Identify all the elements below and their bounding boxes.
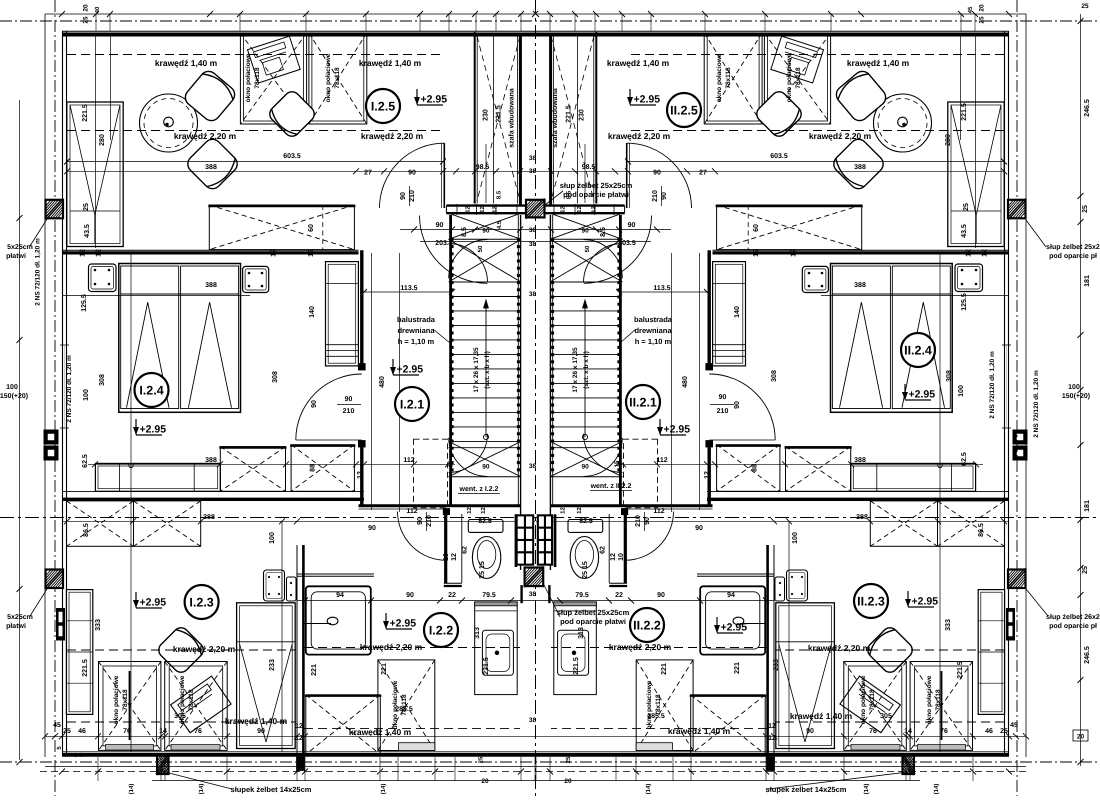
svg-text:8.5: 8.5 — [496, 190, 503, 199]
nightstand I.2.4 b — [802, 266, 828, 292]
dim row 295.5 — [821, 295, 1009, 297]
svg-text:12: 12 — [464, 206, 471, 213]
svg-text:5x25cm: 5x25cm — [7, 244, 33, 251]
stair treads — [452, 281, 518, 283]
door arc landing — [419, 216, 487, 284]
roof edge 1.40 top — [628, 54, 1004, 56]
svg-text:(14): (14) — [645, 784, 652, 795]
beam tick — [476, 204, 478, 215]
svg-text:25: 25 — [478, 756, 485, 763]
svg-text:+2.95: +2.95 — [909, 389, 936, 401]
duvet fold a — [902, 302, 945, 408]
dim row 171.3 — [536, 170, 1004, 172]
svg-text:h = 1,10 m: h = 1,10 m — [398, 337, 435, 346]
svg-text:90: 90 — [406, 592, 414, 599]
skylight I.2.3 a — [99, 662, 161, 751]
door jamb — [358, 441, 365, 448]
shower top wall — [697, 575, 774, 577]
svg-text:43.5: 43.5 — [84, 224, 91, 238]
top dim ticks — [59, 11, 65, 17]
outer thin frame line bottom — [45, 766, 1026, 768]
svg-text:90: 90 — [482, 228, 490, 235]
svg-text:38: 38 — [529, 155, 537, 162]
beam tick — [594, 204, 596, 215]
vent duct — [624, 439, 658, 508]
room label I.2.2 — [424, 613, 458, 647]
door arc stair top a — [449, 240, 488, 279]
svg-text:I.2.4: I.2.4 — [139, 384, 163, 398]
svg-text:II.2.4: II.2.4 — [904, 344, 932, 358]
WC niche walls — [444, 509, 447, 583]
svg-text:8.5: 8.5 — [600, 227, 607, 237]
svg-text:233: 233 — [269, 659, 276, 671]
svg-text:płatwi: płatwi — [6, 622, 26, 630]
svg-text:słup żelbet 25x25cm: słup żelbet 25x25cm — [560, 181, 633, 190]
door arc stair bottom b — [449, 434, 488, 473]
svg-text:210: 210 — [652, 190, 659, 202]
svg-text:5x25cm: 5x25cm — [7, 614, 33, 621]
wall I.2.4 / I.2.3 — [62, 491, 364, 493]
svg-text:+2.95: +2.95 — [664, 424, 691, 436]
shelf unit I.2.3 west — [978, 590, 1004, 715]
svg-text:+2.95: +2.95 — [721, 622, 748, 634]
svg-text:150(+20): 150(+20) — [1062, 392, 1090, 400]
corridor bottom wall — [359, 504, 522, 507]
beam over stair — [446, 204, 535, 206]
level label I.2.2 — [383, 613, 416, 630]
dim row 521 — [62, 520, 535, 522]
svg-text:krawędź 1,40 m: krawędź 1,40 m — [225, 716, 288, 726]
svg-text:76: 76 — [940, 728, 948, 735]
svg-text:2 NS 72/120 dł. 1,20 m: 2 NS 72/120 dł. 1,20 m — [1033, 370, 1040, 438]
svg-text:221.5: 221.5 — [483, 657, 490, 675]
skylight I.2.5 a — [764, 33, 830, 124]
svg-text:221: 221 — [381, 663, 388, 675]
svg-text:79.5: 79.5 — [482, 592, 496, 599]
svg-text:78x118: 78x118 — [869, 689, 876, 711]
stair winders bottom — [449, 442, 521, 477]
desk chair I.2.5 — [754, 89, 805, 140]
room label I.2.4 — [135, 373, 169, 407]
cabinet I.2.4 east — [326, 262, 359, 366]
armchair I.2.5 a — [833, 68, 889, 124]
svg-text:38: 38 — [529, 717, 537, 724]
svg-text:25: 25 — [83, 203, 90, 211]
svg-text:(14): (14) — [380, 784, 387, 795]
svg-text:12: 12 — [704, 471, 711, 479]
wardrobe X brace — [477, 36, 520, 201]
svg-text:krawędź 2,20 m: krawędź 2,20 m — [173, 644, 236, 654]
wall below column — [520, 585, 522, 603]
svg-text:(14): (14) — [863, 784, 870, 795]
svg-text:112: 112 — [653, 508, 664, 515]
skylight I.2.3 a — [910, 662, 972, 751]
svg-text:90: 90 — [719, 394, 727, 401]
svg-text:+2.95: +2.95 — [397, 364, 424, 376]
chimney flue block — [516, 514, 535, 565]
wall I.2.5 / wardrobe — [595, 32, 597, 204]
svg-text:słup żelbet 25x2: słup żelbet 25x2 — [1046, 243, 1100, 251]
svg-text:98.5: 98.5 — [582, 164, 596, 171]
svg-text:308: 308 — [272, 371, 279, 383]
window sill I.2.3 a — [106, 745, 154, 751]
svg-text:480: 480 — [682, 376, 689, 388]
svg-text:okno połaciowe: okno połaciowe — [113, 675, 120, 724]
svg-text:12: 12 — [768, 723, 776, 730]
eave dash-dot frame — [0, 20, 1100, 22]
svg-text:246.5: 246.5 — [1084, 99, 1091, 117]
svg-text:388: 388 — [854, 282, 866, 289]
chimney side wall — [515, 514, 518, 567]
svg-text:388: 388 — [205, 164, 217, 171]
svg-text:krawędź 2,20 m: krawędź 2,20 m — [808, 643, 871, 653]
svg-text:98.5: 98.5 — [476, 164, 490, 171]
svg-text:280: 280 — [99, 134, 106, 146]
svg-text:krawędź 2,20 m: krawędź 2,20 m — [609, 642, 672, 652]
stair direction line — [485, 300, 487, 437]
svg-text:10: 10 — [443, 553, 450, 561]
svg-text:+2.95: +2.95 — [634, 94, 661, 106]
left margin dim line — [19, 100, 21, 760]
svg-text:II.2.1: II.2.1 — [629, 396, 657, 410]
stair winders top — [550, 239, 622, 282]
beam tick — [613, 204, 615, 215]
round table I.2.5 — [140, 94, 198, 152]
svg-text:112: 112 — [656, 457, 667, 464]
svg-text:I.2.3: I.2.3 — [189, 596, 213, 610]
cabinet I.2.4 east — [713, 262, 746, 366]
beam tick — [456, 204, 458, 215]
svg-text:pod oparcie pł: pod oparcie pł — [1049, 622, 1097, 630]
svg-text:25: 25 — [1082, 566, 1089, 574]
svg-text:12: 12 — [965, 249, 972, 257]
svg-text:h = 1,10 m: h = 1,10 m — [635, 337, 672, 346]
svg-text:203.5: 203.5 — [435, 240, 453, 247]
column below chimney — [524, 566, 543, 587]
door arc stair top b — [584, 244, 623, 283]
bath door jamb — [443, 509, 449, 515]
door arc stair bottom b — [584, 434, 623, 473]
svg-text:0 4: 0 4 — [74, 752, 83, 759]
svg-text:388: 388 — [854, 164, 866, 171]
svg-text:+2.95: +2.95 — [912, 596, 939, 608]
svg-text:okno połaciowe: okno połaciowe — [646, 680, 653, 729]
svg-text:90: 90 — [695, 525, 703, 532]
roof edge 1.40 bottom — [775, 721, 1004, 723]
top exterior wall — [62, 30, 1009, 32]
stair winders bottom — [550, 442, 622, 477]
svg-text:25: 25 — [1082, 205, 1089, 213]
svg-text:krawędź 1,40 m: krawędź 1,40 m — [155, 58, 218, 68]
bottom extension stubs — [972, 757, 974, 781]
room label I.2.3 — [185, 585, 219, 619]
svg-text:14: 14 — [159, 728, 167, 735]
svg-text:I.2.2: I.2.2 — [429, 624, 453, 638]
desk I.2.3 rotated — [840, 676, 900, 733]
skylight I.2.5 a — [240, 33, 306, 124]
svg-text:90: 90 — [806, 728, 814, 735]
svg-text:pod oparcie pł: pod oparcie pł — [1049, 252, 1097, 260]
built-in wardrobe strip — [593, 33, 595, 204]
door arc stair bottom a — [584, 438, 623, 477]
window sill I.2.3 a — [918, 745, 966, 751]
door jamb — [706, 441, 713, 448]
svg-text:285.5: 285.5 — [647, 713, 665, 720]
svg-text:86.5: 86.5 — [83, 523, 90, 537]
stair landing lines — [550, 238, 622, 240]
window axis left wall — [1002, 344, 1011, 346]
svg-text:25: 25 — [963, 203, 970, 211]
nightstand I.2.4 a — [955, 264, 983, 292]
svg-text:pod oparcie płatwi: pod oparcie płatwi — [563, 190, 629, 199]
armchair I.2.5 b — [830, 136, 887, 193]
skylight I.2.3 b — [165, 662, 228, 751]
svg-text:221.5: 221.5 — [82, 104, 89, 122]
svg-text:210: 210 — [409, 190, 416, 202]
svg-text:78x118: 78x118 — [188, 689, 195, 711]
svg-text:12: 12 — [295, 735, 303, 742]
svg-text:25: 25 — [63, 728, 71, 735]
svg-text:313: 313 — [474, 627, 481, 639]
svg-text:79.5: 79.5 — [575, 592, 589, 599]
svg-text:90: 90 — [436, 222, 444, 229]
svg-text:drewniana: drewniana — [397, 326, 435, 335]
svg-text:szafa wbudowana: szafa wbudowana — [507, 88, 515, 148]
svg-text:27: 27 — [364, 170, 372, 177]
wall I.2.5 / wardrobe — [474, 32, 476, 204]
dim row 295.5 — [62, 295, 250, 297]
skylight glazing bar — [941, 671, 943, 740]
mattress a — [892, 266, 950, 409]
svg-text:230: 230 — [578, 109, 585, 121]
chimney side wall — [554, 514, 557, 567]
eave column bottom — [156, 753, 170, 775]
svg-text:285.5: 285.5 — [395, 706, 413, 713]
svg-text:38: 38 — [529, 168, 537, 175]
svg-text:17 x 26 x 17,35: 17 x 26 x 17,35 — [473, 347, 480, 393]
window sill I.2.3 b — [851, 745, 900, 751]
svg-text:210: 210 — [426, 515, 433, 527]
svg-text:221.5: 221.5 — [496, 105, 503, 123]
beam tick — [553, 204, 555, 215]
vent duct — [414, 439, 448, 508]
svg-text:balustrada: balustrada — [397, 315, 436, 324]
svg-text:76: 76 — [194, 728, 202, 735]
stair landing lines — [449, 238, 521, 240]
nightstand I.2.4 b — [243, 266, 269, 292]
svg-text:388: 388 — [205, 457, 217, 464]
svg-text:słupek żelbet 14x25cm: słupek żelbet 14x25cm — [766, 785, 847, 794]
dim row 241.5 — [420, 241, 535, 243]
level label II.2.3 — [905, 591, 938, 608]
svg-text:308: 308 — [99, 374, 106, 386]
dim row 731 — [45, 735, 535, 737]
svg-text:+2.95: +2.95 — [140, 424, 167, 436]
svg-text:II.2.2: II.2.2 — [633, 619, 661, 633]
svg-text:17 x 26 x 17,35: 17 x 26 x 17,35 — [572, 347, 579, 393]
svg-text:125.5: 125.5 — [81, 294, 88, 312]
duct wall line — [608, 514, 610, 583]
svg-text:603.5: 603.5 — [770, 153, 788, 160]
svg-text:62: 62 — [462, 546, 469, 554]
mattress b — [832, 266, 890, 409]
toilet — [568, 520, 603, 533]
svg-text:krawędź 1,40 m: krawędź 1,40 m — [847, 58, 910, 68]
svg-text:90: 90 — [657, 592, 665, 599]
wall I.2.5 / I.2.4 — [62, 249, 359, 251]
svg-text:8.5: 8.5 — [566, 190, 573, 199]
svg-text:90: 90 — [628, 222, 636, 229]
room label II.2.3 — [854, 584, 888, 618]
level label II.2.5 — [627, 89, 660, 106]
svg-text:76: 76 — [123, 728, 131, 735]
wall I.2.4 / I.2.3 — [707, 491, 1009, 493]
svg-text:2 NS 72/120 dł. 1,20 m: 2 NS 72/120 dł. 1,20 m — [35, 238, 42, 306]
svg-text:12: 12 — [295, 723, 303, 730]
svg-text:drewniana: drewniana — [634, 326, 672, 335]
svg-text:2 NS 72/120 dł. 1,20 m: 2 NS 72/120 dł. 1,20 m — [989, 351, 996, 419]
door arc stair bottom a — [449, 438, 488, 477]
svg-text:+2.95: +2.95 — [390, 618, 417, 630]
svg-text:krawędź 1,40 m: krawędź 1,40 m — [790, 711, 853, 721]
closet over I.2.4 — [716, 205, 863, 250]
outer thin frame line left — [44, 14, 46, 757]
svg-text:90: 90 — [345, 396, 353, 403]
column right wall bottom — [1008, 568, 1027, 589]
svg-text:50: 50 — [584, 245, 591, 252]
svg-text:90: 90 — [368, 525, 376, 532]
window sill bath — [399, 743, 435, 751]
bathroom west wall — [773, 545, 775, 754]
svg-text:113.5: 113.5 — [400, 285, 417, 292]
door arc landing — [584, 216, 652, 284]
corridor width dim — [619, 291, 707, 293]
svg-text:25: 25 — [565, 756, 572, 763]
svg-text:203.5: 203.5 — [618, 240, 636, 247]
svg-text:50: 50 — [477, 245, 484, 252]
corridor west wall — [360, 250, 363, 366]
svg-text:12: 12 — [80, 249, 87, 257]
svg-text:krawędź 1,40 m: krawędź 1,40 m — [349, 727, 412, 737]
svg-text:12: 12 — [560, 507, 567, 514]
svg-text:25 15: 25 15 — [582, 561, 589, 579]
svg-text:słupek żelbet 14x25cm: słupek żelbet 14x25cm — [231, 785, 312, 794]
wall stub below bottom wall — [767, 757, 775, 771]
svg-text:20: 20 — [83, 4, 90, 12]
dim row 241.5 — [536, 241, 651, 243]
svg-text:90: 90 — [482, 464, 490, 471]
shower — [306, 586, 371, 654]
svg-text:okno połaciowe: okno połaciowe — [325, 53, 332, 102]
level label I.2.1 — [390, 359, 423, 376]
svg-text:88: 88 — [310, 464, 317, 472]
svg-text:112: 112 — [403, 457, 414, 464]
svg-text:62.5: 62.5 — [961, 452, 968, 466]
wall stub below bottom wall — [297, 757, 305, 771]
desk I.2.5 — [771, 36, 824, 83]
room label II.2.1 — [626, 385, 660, 419]
svg-text:12: 12 — [768, 735, 776, 742]
svg-text:+2.95: +2.95 — [140, 597, 167, 609]
svg-text:38: 38 — [529, 291, 537, 298]
svg-text:krawędź 2,20 m: krawędź 2,20 m — [608, 131, 671, 141]
svg-text:(14): (14) — [128, 784, 135, 795]
bed I.2.4 — [119, 264, 241, 413]
roof edge 2.20 bottom — [775, 649, 1004, 651]
shower top wall — [297, 575, 374, 577]
svg-text:388: 388 — [203, 514, 215, 521]
svg-text:308: 308 — [771, 370, 778, 382]
wall below column — [548, 585, 550, 603]
svg-text:280: 280 — [945, 134, 952, 146]
svg-text:125.5: 125.5 — [961, 293, 968, 311]
svg-text:233: 233 — [773, 659, 780, 671]
skylight bath low — [305, 695, 382, 755]
svg-text:88: 88 — [751, 464, 758, 472]
svg-text:221: 221 — [661, 663, 668, 675]
room label I.2.1 — [395, 387, 429, 421]
level label I.2.5 — [414, 89, 447, 106]
svg-text:szafa wbudowana: szafa wbudowana — [551, 88, 559, 148]
door jamb — [706, 364, 713, 371]
stair west wall — [619, 215, 622, 505]
svg-text:20: 20 — [564, 778, 572, 785]
vertical dim lines — [95, 36, 97, 248]
svg-text:2 NS 72/120 dł. 1,20 m: 2 NS 72/120 dł. 1,20 m — [66, 355, 73, 423]
svg-text:krawędź 1,40 m: krawędź 1,40 m — [607, 58, 670, 68]
column top center — [526, 198, 545, 219]
outer thin frame line top — [45, 13, 1026, 15]
wardrobe I.2.3 east — [237, 603, 296, 749]
svg-text:4.5: 4.5 — [496, 220, 503, 229]
svg-text:100: 100 — [83, 389, 90, 401]
svg-text:45: 45 — [53, 722, 61, 729]
room label II.2.2 — [630, 608, 664, 642]
door arc I.2.4 — [709, 374, 775, 440]
svg-text:388: 388 — [856, 514, 868, 521]
dim row 464 — [88, 463, 455, 465]
svg-text:90: 90 — [644, 517, 651, 525]
svg-text:I.2.1: I.2.1 — [400, 398, 424, 412]
svg-text:38: 38 — [529, 463, 537, 470]
svg-text:12: 12 — [480, 507, 487, 514]
svg-text:25: 25 — [979, 16, 986, 24]
stair winders top — [449, 239, 521, 282]
window sill bath — [636, 743, 672, 751]
roof edge 1.40 top — [67, 54, 443, 56]
toilet — [468, 520, 503, 533]
closet I.2.3 a — [67, 501, 134, 546]
svg-text:12: 12 — [96, 249, 103, 257]
svg-text:12: 12 — [610, 553, 617, 561]
dim row 597 — [536, 600, 774, 602]
roof edge 2.20 bottom — [67, 649, 296, 651]
svg-text:krawędź 2,20 m: krawędź 2,20 m — [809, 131, 872, 141]
svg-text:okno połaciowe: okno połaciowe — [716, 53, 723, 102]
mattress b — [181, 266, 239, 409]
svg-text:90: 90 — [257, 728, 265, 735]
svg-text:22: 22 — [615, 592, 623, 599]
svg-text:76: 76 — [869, 728, 877, 735]
right margin dim line — [1080, 14, 1082, 766]
svg-text:25: 25 — [83, 16, 90, 24]
dim row 171.3 — [67, 170, 535, 172]
skylight bath right — [636, 660, 693, 751]
svg-text:12: 12 — [753, 249, 760, 257]
roof edge 2.20 top — [67, 130, 443, 132]
svg-text:100: 100 — [269, 532, 276, 544]
svg-text:90: 90 — [408, 170, 416, 177]
